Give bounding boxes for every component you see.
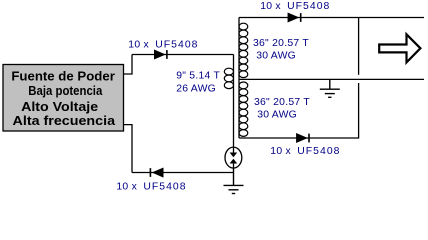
ground (spark gap) — [224, 168, 244, 194]
svg-text:10 x UF5408: 10 x UF5408 — [128, 39, 198, 50]
diode D1 10 x UF5408 (top-left) — [154, 50, 167, 59]
svg-text:36" 20.57 T: 36" 20.57 T — [253, 38, 309, 49]
wire: top secondary output rail — [239, 17, 424, 19]
svg-text:30 AWG: 30 AWG — [256, 51, 296, 62]
diode D4 10 x UF5408 (bottom-right) — [296, 133, 309, 142]
diode D2 10 x UF5408 (bottom-left, pointing left) — [150, 168, 163, 177]
spark gap SG1 — [225, 147, 242, 168]
transformer T1 secondary lead (core side) — [238, 18, 240, 139]
svg-text:36" 20.57 T: 36" 20.57 T — [254, 97, 310, 108]
svg-text:Fuente de Poder: Fuente de Poder — [11, 68, 115, 83]
transformer T1 secondary winding top 36" 20.57 T 30 AWG — [239, 23, 248, 77]
transformer T1 primary winding 9" 5.14 T 26 AWG — [224, 68, 233, 88]
svg-text:10 x UF5408: 10 x UF5408 — [270, 146, 340, 157]
wire: box top output to top-left rail — [124, 55, 132, 75]
svg-text:26 AWG: 26 AWG — [176, 83, 216, 94]
svg-text:Alta frecuencia: Alta frecuencia — [13, 113, 116, 128]
svg-text:9" 5.14 T: 9" 5.14 T — [176, 70, 220, 81]
svg-text:Alto Voltaje: Alto Voltaje — [21, 99, 98, 114]
wire: rectifier node vertical (top section, crossover gap at center tap rail) — [358, 18, 360, 75]
svg-text:30 AWG: 30 AWG — [257, 110, 297, 121]
transformer T1 secondary winding bottom 36" 20.57 T 30 AWG — [239, 82, 248, 136]
wire: bottom secondary output to rectifier node — [239, 83, 359, 138]
wire: box bottom output to bottom-left rail — [124, 125, 132, 173]
wire: center tap rail to right edge — [239, 78, 424, 80]
source block: Fuente de Poder — [3, 65, 124, 132]
wire: top-left rail to primary top — [132, 54, 234, 56]
diode D3 10 x UF5408 (top-right) — [288, 13, 301, 22]
svg-text:10 x UF5408: 10 x UF5408 — [116, 181, 186, 192]
output arrow annotation — [379, 34, 420, 62]
wire: bottom-left rail to spark gap node — [132, 172, 234, 174]
ground (center tap) — [320, 79, 340, 97]
svg-text:10 x UF5408: 10 x UF5408 — [260, 1, 330, 12]
transformer T1 primary lead — [233, 55, 235, 148]
svg-text:Baja potencia: Baja potencia — [28, 83, 103, 98]
